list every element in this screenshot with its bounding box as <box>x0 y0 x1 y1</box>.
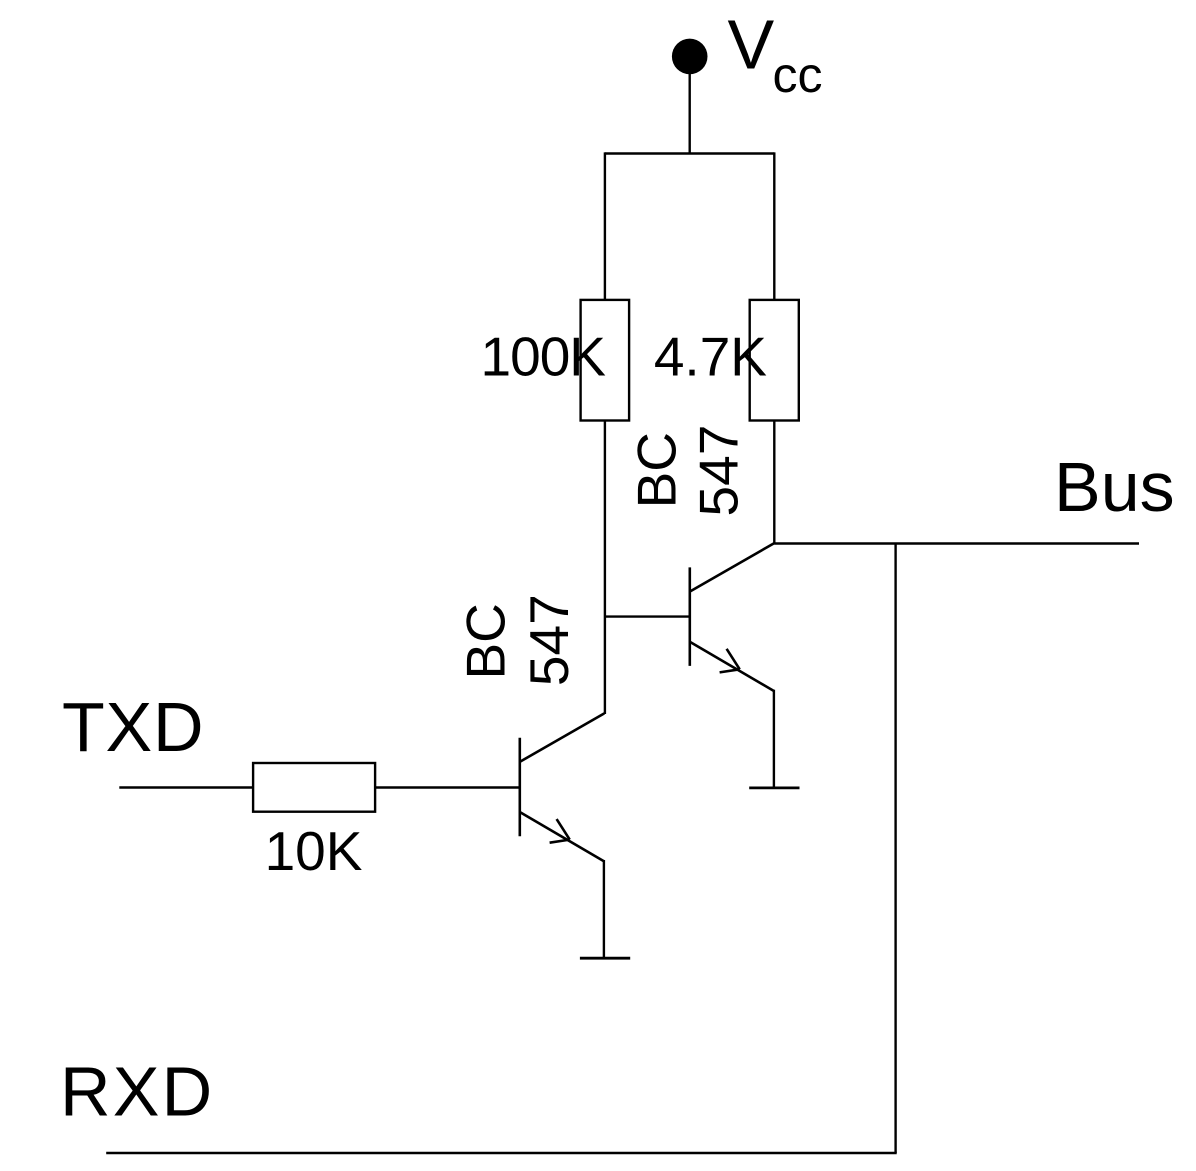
svg-text:V: V <box>728 6 775 84</box>
wire Q1 emitter to ground <box>603 860 605 958</box>
wire R1 bottom to Q1 collector <box>604 421 606 715</box>
svg-text:4.7K: 4.7K <box>654 326 767 388</box>
ground Q2 emitter <box>749 787 799 790</box>
resistor R2 4.7K body <box>750 300 799 421</box>
wire Bus branch vertical down <box>894 544 896 1154</box>
wire RXD bottom horizontal <box>106 1152 897 1154</box>
svg-text:cc: cc <box>773 47 823 103</box>
wire R2 bottom to Bus node <box>773 421 775 544</box>
svg-text:10K: 10K <box>265 820 363 882</box>
transistor Q1 BC547 <box>520 713 605 861</box>
wire Q2 emitter to ground <box>773 690 775 788</box>
svg-text:547: 547 <box>688 425 750 517</box>
wire Q2 base from R1 net <box>605 615 690 617</box>
svg-text:100K: 100K <box>481 326 607 388</box>
resistor R3 10K body <box>253 763 375 812</box>
svg-text:Bus: Bus <box>1054 448 1175 526</box>
wire Vcc dot to top rail <box>689 60 691 154</box>
svg-text:TXD: TXD <box>62 688 204 766</box>
svg-text:BC: BC <box>455 603 517 679</box>
svg-text:RXD: RXD <box>60 1052 214 1130</box>
wire TXD lead-in <box>119 786 253 788</box>
resistor R1 100K body <box>581 300 630 421</box>
wire Bus rail horizontal <box>774 542 1139 544</box>
transistor Q2 BC547 <box>690 543 775 691</box>
wire top rail horizontal <box>605 152 774 154</box>
svg-text:BC: BC <box>625 432 687 508</box>
wire R3 to Q1 base <box>375 786 520 788</box>
node Vcc terminal dot <box>672 39 708 75</box>
svg-text:547: 547 <box>518 594 580 686</box>
wire top rail to R2 top <box>773 152 775 300</box>
wire top rail to R1 top <box>604 152 606 300</box>
ground Q1 emitter <box>580 957 630 960</box>
